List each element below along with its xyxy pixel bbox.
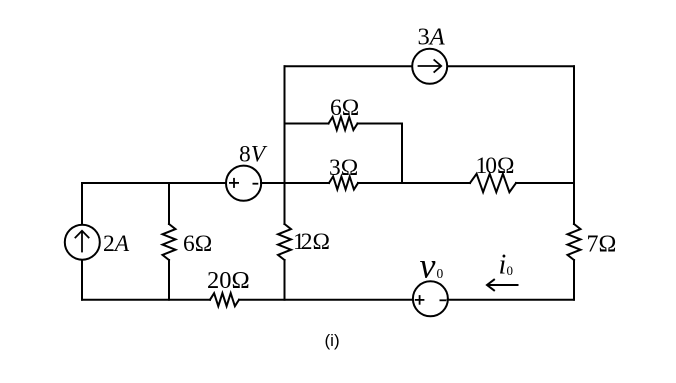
resistor R 6ohm left bbox=[163, 224, 176, 260]
current source 2A bbox=[65, 225, 100, 260]
resistor R 10ohm bbox=[470, 174, 516, 192]
resistor R 3ohm bbox=[329, 177, 358, 190]
svg-text:i: i bbox=[499, 250, 507, 281]
arrow i0 bbox=[487, 280, 518, 291]
svg-text:8V: 8V bbox=[239, 142, 268, 168]
svg-text:3A: 3A bbox=[418, 24, 446, 51]
svg-text:3Ω: 3Ω bbox=[329, 155, 358, 181]
resistor R 7ohm bbox=[568, 224, 581, 260]
wire 6ohm-left column bottom bbox=[168, 260, 170, 300]
resistor R 6ohm top bbox=[329, 117, 358, 130]
wire mid vertical full bbox=[284, 66, 286, 224]
wire left vertical bottom bbox=[81, 260, 83, 300]
wire bottom segment 2 bbox=[239, 299, 413, 301]
svg-text:6Ω: 6Ω bbox=[330, 95, 359, 121]
wire middle segment 4 bbox=[516, 182, 574, 184]
wire top left segment bbox=[285, 65, 413, 67]
current source 3A bbox=[412, 49, 447, 84]
svg-text:12Ω: 12Ω bbox=[293, 229, 330, 255]
wire right vertical upper bbox=[573, 66, 575, 224]
wire 6ohm-left column top bbox=[168, 183, 170, 224]
svg-text:2A: 2A bbox=[103, 231, 130, 257]
wire mid vertical bottom bbox=[284, 260, 286, 300]
voltage source v0 bbox=[413, 281, 448, 316]
wire middle segment 2 bbox=[261, 182, 329, 184]
resistor R 12ohm bbox=[278, 224, 291, 260]
wire 6ohm branch right bbox=[358, 124, 403, 184]
resistor R 20ohm bbox=[210, 293, 239, 306]
wire bottom segment 1 bbox=[82, 299, 210, 301]
wire 6ohm branch left bbox=[285, 123, 329, 125]
wire left vertical top bbox=[81, 183, 83, 225]
wire middle left bbox=[82, 182, 226, 184]
svg-text:0: 0 bbox=[507, 263, 514, 278]
voltage source 8V bbox=[226, 166, 261, 201]
wire bottom segment 3 bbox=[448, 299, 575, 301]
wire middle segment 3 bbox=[358, 182, 470, 184]
svg-text:v: v bbox=[420, 245, 436, 285]
svg-text:(i): (i) bbox=[325, 331, 340, 350]
svg-text:20Ω: 20Ω bbox=[207, 267, 250, 294]
svg-text:10Ω: 10Ω bbox=[476, 153, 515, 179]
wire right vertical lower bbox=[573, 260, 575, 300]
wire top right segment bbox=[447, 65, 574, 67]
svg-text:6Ω: 6Ω bbox=[183, 231, 212, 257]
svg-text:0: 0 bbox=[437, 266, 444, 281]
svg-text:7Ω: 7Ω bbox=[587, 232, 617, 258]
